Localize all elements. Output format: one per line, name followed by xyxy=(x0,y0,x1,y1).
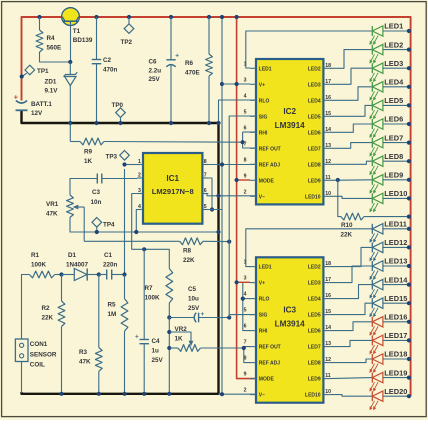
svg-text:TP2: TP2 xyxy=(121,39,133,46)
svg-text:470n: 470n xyxy=(103,67,118,74)
svg-text:REF ADJ: REF ADJ xyxy=(259,361,280,367)
svg-text:LED6: LED6 xyxy=(308,329,321,335)
svg-text:LED1: LED1 xyxy=(384,22,403,31)
svg-text:LED8: LED8 xyxy=(308,162,321,168)
svg-text:REF ADJ: REF ADJ xyxy=(259,162,280,168)
svg-text:LED5: LED5 xyxy=(308,313,321,319)
svg-text:22K: 22K xyxy=(42,315,54,322)
svg-text:LED11: LED11 xyxy=(384,220,407,229)
svg-text:7: 7 xyxy=(244,340,247,346)
svg-text:47K: 47K xyxy=(79,359,91,366)
svg-text:RHI: RHI xyxy=(259,329,268,335)
svg-text:SIG: SIG xyxy=(259,313,268,319)
svg-text:R5: R5 xyxy=(108,302,117,309)
svg-text:LED2: LED2 xyxy=(384,40,403,49)
svg-text:LED8: LED8 xyxy=(308,361,321,367)
svg-text:10n: 10n xyxy=(91,199,102,206)
svg-text:MODE: MODE xyxy=(259,377,275,383)
svg-text:SENSOR: SENSOR xyxy=(30,352,57,359)
svg-text:R4: R4 xyxy=(47,35,56,42)
svg-text:SIG: SIG xyxy=(259,114,268,120)
svg-text:4: 4 xyxy=(244,292,247,298)
svg-text:1M: 1M xyxy=(108,311,117,318)
svg-text:4: 4 xyxy=(244,93,247,99)
svg-text:LED12: LED12 xyxy=(384,238,407,247)
svg-text:LED3: LED3 xyxy=(384,59,403,68)
svg-text:+: + xyxy=(14,93,19,102)
svg-text:LED6: LED6 xyxy=(384,115,403,124)
svg-text:6: 6 xyxy=(244,324,247,330)
svg-text:D1: D1 xyxy=(68,252,77,259)
svg-text:100K: 100K xyxy=(31,262,47,269)
svg-text:REF OUT: REF OUT xyxy=(259,146,281,152)
svg-text:LED4: LED4 xyxy=(384,78,404,87)
svg-text:LED1: LED1 xyxy=(259,265,272,271)
svg-text:2: 2 xyxy=(244,189,247,195)
svg-text:6: 6 xyxy=(244,125,247,131)
svg-text:BATT.1: BATT.1 xyxy=(31,101,52,108)
svg-text:R3: R3 xyxy=(79,349,88,356)
svg-text:LED9: LED9 xyxy=(308,377,321,383)
svg-text:R6: R6 xyxy=(185,60,194,67)
svg-text:C6: C6 xyxy=(149,59,158,66)
svg-text:COIL: COIL xyxy=(30,362,45,369)
svg-text:R7: R7 xyxy=(145,285,154,292)
svg-text:9.1V: 9.1V xyxy=(45,88,59,95)
svg-text:220n: 220n xyxy=(103,262,118,269)
svg-text:3: 3 xyxy=(244,77,247,83)
svg-text:470E: 470E xyxy=(185,70,200,77)
svg-text:RHI: RHI xyxy=(259,130,268,136)
svg-text:100K: 100K xyxy=(145,295,161,302)
svg-text:3: 3 xyxy=(244,276,247,282)
svg-text:LED9: LED9 xyxy=(384,171,403,180)
svg-text:LED10: LED10 xyxy=(305,194,321,200)
svg-text:25V: 25V xyxy=(188,305,200,312)
svg-text:R1: R1 xyxy=(31,252,40,259)
svg-text:REF OUT: REF OUT xyxy=(259,345,281,351)
svg-text:9: 9 xyxy=(244,372,247,378)
svg-text:LED18: LED18 xyxy=(384,350,407,359)
svg-text:3: 3 xyxy=(138,188,141,194)
svg-text:C4: C4 xyxy=(152,338,161,345)
svg-text:LED1: LED1 xyxy=(259,66,272,72)
svg-text:LED13: LED13 xyxy=(384,257,407,266)
svg-text:LED7: LED7 xyxy=(308,146,321,152)
svg-text:47K: 47K xyxy=(46,211,58,218)
svg-text:1N4007: 1N4007 xyxy=(66,262,89,269)
svg-text:R2: R2 xyxy=(42,305,51,312)
svg-text:4: 4 xyxy=(138,204,141,210)
svg-text:LED3: LED3 xyxy=(308,281,321,287)
svg-text:LED16: LED16 xyxy=(384,313,407,322)
svg-text:LED9: LED9 xyxy=(308,178,321,184)
svg-text:12V: 12V xyxy=(31,110,43,117)
svg-text:TP0: TP0 xyxy=(112,102,124,109)
svg-text:8: 8 xyxy=(244,157,247,163)
svg-text:2.2u: 2.2u xyxy=(149,68,162,75)
svg-text:2: 2 xyxy=(244,388,247,394)
svg-text:LED10: LED10 xyxy=(384,189,407,198)
svg-text:V−: V− xyxy=(259,393,265,399)
svg-text:R9: R9 xyxy=(84,149,93,156)
svg-text:2: 2 xyxy=(138,173,141,179)
svg-text:VR2: VR2 xyxy=(175,326,188,333)
svg-text:LED5: LED5 xyxy=(308,114,321,120)
svg-text:LED5: LED5 xyxy=(384,96,403,105)
svg-text:LM3914: LM3914 xyxy=(275,121,305,130)
svg-text:1K: 1K xyxy=(84,158,93,165)
svg-text:22K: 22K xyxy=(341,232,353,239)
svg-text:TP4: TP4 xyxy=(103,222,115,229)
svg-text:IC1: IC1 xyxy=(166,174,179,183)
svg-text:CON1: CON1 xyxy=(30,341,48,348)
svg-text:1K: 1K xyxy=(175,336,184,343)
svg-text:LM3914: LM3914 xyxy=(275,319,305,328)
svg-text:C2: C2 xyxy=(103,57,112,64)
svg-text:LED4: LED4 xyxy=(308,98,321,104)
svg-text:TP3: TP3 xyxy=(106,154,118,161)
svg-text:8: 8 xyxy=(244,356,247,362)
svg-text:LED2: LED2 xyxy=(308,265,321,271)
svg-text:LED10: LED10 xyxy=(305,393,321,399)
svg-text:MODE: MODE xyxy=(259,178,275,184)
svg-text:5: 5 xyxy=(244,308,247,314)
svg-text:LED17: LED17 xyxy=(384,331,407,340)
svg-text:LED19: LED19 xyxy=(384,368,407,377)
svg-text:LED8: LED8 xyxy=(384,152,403,161)
svg-text:IC3: IC3 xyxy=(283,305,296,314)
svg-text:25V: 25V xyxy=(149,76,161,83)
svg-text:V+: V+ xyxy=(259,281,265,287)
svg-text:+: + xyxy=(175,53,179,60)
svg-text:LM2917N−8: LM2917N−8 xyxy=(152,187,194,196)
svg-text:9: 9 xyxy=(244,173,247,179)
svg-text:1: 1 xyxy=(138,159,141,165)
svg-text:25V: 25V xyxy=(152,357,164,364)
svg-text:10u: 10u xyxy=(188,296,199,303)
svg-text:VR1: VR1 xyxy=(46,201,59,208)
svg-text:C5: C5 xyxy=(188,286,197,293)
svg-text:LED20: LED20 xyxy=(384,387,407,396)
svg-text:BD139: BD139 xyxy=(73,37,93,44)
svg-text:IC2: IC2 xyxy=(283,107,296,116)
svg-text:LED4: LED4 xyxy=(308,297,321,303)
svg-text:LED3: LED3 xyxy=(308,82,321,88)
svg-text:R10: R10 xyxy=(341,222,353,229)
svg-text:+: + xyxy=(201,311,205,318)
svg-text:TP1: TP1 xyxy=(37,68,49,75)
svg-text:C3: C3 xyxy=(92,189,101,196)
svg-text:7: 7 xyxy=(244,141,247,147)
svg-text:LED15: LED15 xyxy=(384,294,407,303)
svg-text:1u: 1u xyxy=(152,348,160,355)
svg-text:V−: V− xyxy=(259,194,265,200)
svg-text:LED14: LED14 xyxy=(384,275,408,284)
svg-text:5: 5 xyxy=(244,109,247,115)
svg-text:LED2: LED2 xyxy=(308,66,321,72)
svg-text:RLO: RLO xyxy=(259,297,270,303)
svg-text:ZD1: ZD1 xyxy=(45,79,57,86)
svg-text:C1: C1 xyxy=(104,252,113,259)
svg-text:T1: T1 xyxy=(73,28,81,35)
svg-text:LED7: LED7 xyxy=(384,133,403,142)
svg-text:LED7: LED7 xyxy=(308,345,321,351)
svg-text:V+: V+ xyxy=(259,82,265,88)
svg-text:560E: 560E xyxy=(47,45,62,52)
svg-text:RLO: RLO xyxy=(259,98,270,104)
svg-text:LED6: LED6 xyxy=(308,130,321,136)
svg-text:+: + xyxy=(135,334,139,341)
svg-text:R8: R8 xyxy=(183,248,192,255)
svg-text:22K: 22K xyxy=(183,257,195,264)
